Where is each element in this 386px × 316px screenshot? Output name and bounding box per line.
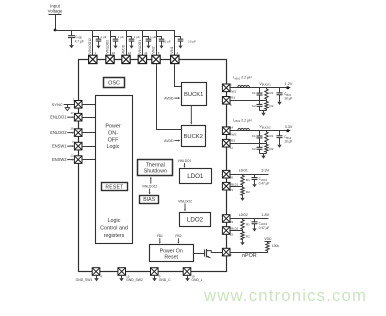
svg-text:C1: C1 <box>252 91 256 95</box>
block OSC <box>104 78 125 88</box>
block LDO2 <box>180 213 211 227</box>
svg-text:VINLDO2: VINLDO2 <box>178 199 192 203</box>
svg-text:VIN2: VIN2 <box>151 46 155 53</box>
svg-text:R2: R2 <box>246 235 250 239</box>
svg-text:17: 17 <box>70 111 74 115</box>
svg-text:13: 13 <box>144 51 148 55</box>
wire VIN1 to BUCK1 <box>175 64 182 87</box>
svg-text:Shutdown: Shutdown <box>144 169 167 175</box>
block Thermal Shutdown <box>138 160 173 176</box>
capacitor 1 µF at VINLDO2 <box>110 36 116 38</box>
resistor R1 <box>241 219 244 231</box>
wire arrow VINLDO12 to Thermal Shutdown <box>150 177 152 184</box>
svg-text:12: 12 <box>70 153 74 157</box>
pin VIN1 (4) <box>171 55 179 63</box>
svg-text:21: 21 <box>230 188 234 192</box>
capacitor CBU2 10 uF <box>277 131 283 143</box>
svg-text:FB2: FB2 <box>230 138 236 142</box>
svg-text:AVDD: AVDD <box>164 139 174 143</box>
svg-text:ENSW2: ENSW2 <box>52 157 67 162</box>
svg-text:GND_SW1: GND_SW1 <box>76 278 93 282</box>
svg-text:LDO1: LDO1 <box>239 169 248 173</box>
pin AVDD (10) <box>122 55 130 63</box>
svg-text:FB1: FB1 <box>157 234 163 238</box>
resistor R2 <box>241 231 244 241</box>
capacitor C2 <box>257 143 263 153</box>
svg-text:14: 14 <box>230 126 234 130</box>
pin GND_C (9) <box>151 268 159 276</box>
pin GND_SW1 (4) <box>92 268 100 276</box>
ground at GND_L <box>185 275 190 281</box>
capacitor 10 µF at VIN2 <box>156 36 162 38</box>
pin FB1 (8) <box>222 97 230 105</box>
svg-text:0.47 µF: 0.47 µF <box>259 226 270 230</box>
svg-text:10: 10 <box>128 51 132 55</box>
svg-text:1 µF: 1 µF <box>100 35 106 39</box>
svg-text:VIN1: VIN1 <box>170 46 174 53</box>
pin LDO1 (20) <box>222 170 230 178</box>
pin FBLD1 (21) <box>222 182 230 190</box>
svg-text:ENSW1: ENSW1 <box>52 144 67 149</box>
wire ENSW2 to logic <box>82 159 96 161</box>
resistor R2 <box>265 143 268 153</box>
svg-text:www.cntronics.com: www.cntronics.com <box>203 286 367 305</box>
svg-text:BUCK1: BUCK1 <box>184 92 203 98</box>
svg-text:10 µF: 10 µF <box>163 40 171 44</box>
wire join, ground <box>259 110 266 112</box>
svg-text:OFF: OFF <box>108 137 119 143</box>
svg-text:AVDD: AVDD <box>121 44 125 53</box>
block BIAS <box>140 196 159 204</box>
pin VINLDO12 (1) <box>89 55 97 63</box>
svg-text:GND_SW2: GND_SW2 <box>126 278 143 282</box>
svg-text:R1: R1 <box>270 134 274 138</box>
svg-text:AVDD: AVDD <box>164 96 174 100</box>
capacitor CLDO2 0.47 uF <box>252 219 258 228</box>
wire FBLD2 feedback <box>230 230 243 232</box>
wire bus to pin VIN1 <box>174 30 176 55</box>
svg-text:23: 23 <box>230 220 234 224</box>
node input bus junction <box>54 29 57 32</box>
pin FBLD2 (22) <box>222 227 230 235</box>
wire bus to pin AVDD <box>126 30 128 55</box>
svg-text:FB1: FB1 <box>230 95 236 99</box>
svg-text:100k: 100k <box>272 244 280 248</box>
pin VIN2 (6) <box>152 55 160 63</box>
block BUCK1 <box>182 83 207 106</box>
svg-text:20: 20 <box>230 176 234 180</box>
wire FBLD1 feedback <box>230 186 243 188</box>
svg-text:FBLD1: FBLD1 <box>230 182 239 186</box>
block Power ON-OFF Logic / Logic Control and registers <box>96 96 133 244</box>
svg-text:VDD: VDD <box>264 237 272 241</box>
wire ENLDO1 to logic <box>82 117 96 119</box>
resistor 100k pull-up <box>266 241 269 252</box>
pin VINLDO1 (13) <box>138 55 146 63</box>
svg-text:11: 11 <box>230 146 233 150</box>
svg-text:ON-: ON- <box>108 130 118 136</box>
svg-text:R1: R1 <box>246 223 250 227</box>
ground at GND_C <box>152 275 157 281</box>
wire arrow VINLDO12 to BIAS <box>149 189 151 195</box>
capacitor CVDD 4.7uF <box>68 30 75 43</box>
wire VIN2 to BUCK2 <box>157 64 182 130</box>
svg-text:16: 16 <box>70 126 74 130</box>
wire bus to pin VIN2 <box>156 30 158 55</box>
svg-text:1 µF: 1 µF <box>150 35 156 39</box>
svg-text:Thermal: Thermal <box>146 162 165 168</box>
svg-text:BUCK2: BUCK2 <box>184 134 203 140</box>
svg-text:FB2: FB2 <box>175 234 181 238</box>
capacitor 1 µF at VINLDO12 <box>93 36 99 38</box>
wire ENSW1 to logic <box>82 146 96 148</box>
wire ENLDO2 to logic <box>82 132 96 134</box>
svg-text:RESET: RESET <box>105 184 123 190</box>
svg-text:VINLDO12: VINLDO12 <box>88 38 92 54</box>
svg-text:FBLD2: FBLD2 <box>230 227 239 231</box>
svg-text:LDO2: LDO2 <box>187 217 204 224</box>
svg-text:R1: R1 <box>270 91 274 95</box>
wire SW1 to inductor/output <box>230 87 290 89</box>
svg-text:LBU2 2.2 µH: LBU2 2.2 µH <box>233 119 252 124</box>
wire arrow BUCK1 to BUCK2 <box>190 106 192 125</box>
ground at GND_SW1 <box>94 275 99 281</box>
svg-text:BIAS: BIAS <box>143 197 155 203</box>
wire bus to pin VINLDO12 <box>92 30 94 55</box>
capacitor C1 <box>257 131 263 144</box>
svg-text:Logic: Logic <box>108 218 121 224</box>
svg-text:LDO2: LDO2 <box>239 213 248 217</box>
svg-text:R2: R2 <box>246 190 250 194</box>
block RESET <box>102 183 128 191</box>
svg-text:registers: registers <box>104 233 125 239</box>
ground at SYNC <box>67 105 69 108</box>
svg-text:0.47 µF: 0.47 µF <box>259 182 270 186</box>
transistor open-drain NMOS <box>204 250 206 257</box>
svg-text:R1: R1 <box>246 178 250 182</box>
pin GND_L (19) <box>183 268 191 276</box>
svg-text:SYNC: SYNC <box>52 102 63 107</box>
wire transistor drain to nPOR pin <box>211 252 222 254</box>
resistor R2 <box>265 100 268 110</box>
svg-text:VINLDO1: VINLDO1 <box>178 159 192 163</box>
resistor R1 <box>265 88 268 101</box>
svg-text:4.7 µF: 4.7 µF <box>75 40 84 44</box>
block BUCK2 <box>182 126 206 147</box>
wire FB2 feedback <box>230 143 267 145</box>
svg-text:ENLDO2: ENLDO2 <box>50 130 67 135</box>
block LDO1 <box>180 169 212 184</box>
svg-text:24: 24 <box>112 51 116 55</box>
wire join, ground <box>259 153 266 155</box>
svg-text:nPOR: nPOR <box>242 253 257 259</box>
svg-text:R2: R2 <box>270 147 274 151</box>
block Power On Reset <box>150 245 194 262</box>
ground at GND_SW2 <box>119 275 124 281</box>
pin GND_SW2 (15) <box>118 268 126 276</box>
capacitor CBU1 10 uF <box>277 88 283 100</box>
svg-text:VINLDO2: VINLDO2 <box>105 40 109 54</box>
pin VINLDO2 (24) <box>106 55 114 63</box>
svg-text:10 µF: 10 µF <box>284 140 292 144</box>
wire SYNC to logic <box>82 104 96 106</box>
capacitor C2 <box>257 100 263 110</box>
capacitor 10 µF at VIN1 <box>175 36 181 38</box>
svg-text:C2: C2 <box>252 147 256 151</box>
svg-text:3.3V: 3.3V <box>285 125 293 129</box>
pin nPOR (3) <box>222 248 230 256</box>
svg-text:C1: C1 <box>252 134 256 138</box>
svg-text:SW2: SW2 <box>230 132 237 136</box>
wire input to bus <box>55 14 57 30</box>
svg-text:R2: R2 <box>270 104 274 108</box>
pin SW2 (14) <box>222 127 230 135</box>
capacitor 1 µF at VINLDO1 <box>142 36 148 38</box>
resistor R2 <box>241 186 244 196</box>
wire bus to pin VINLDO2 <box>110 30 112 55</box>
svg-text:VINLDO1: VINLDO1 <box>138 40 142 54</box>
svg-text:1 µF: 1 µF <box>134 35 140 39</box>
svg-text:Logic: Logic <box>107 144 120 150</box>
svg-text:1 µF: 1 µF <box>118 35 124 39</box>
pin SW1 (5) <box>222 84 230 92</box>
svg-text:OSC: OSC <box>108 80 120 86</box>
svg-text:Power On: Power On <box>160 248 183 254</box>
svg-text:22: 22 <box>230 232 234 236</box>
inductor BU1 2.2 uH <box>238 85 250 87</box>
wire LDO2 output <box>230 218 269 220</box>
svg-text:3.3V: 3.3V <box>261 169 269 173</box>
wire FB1 feedback <box>230 100 267 102</box>
inductor BU2 2.2 uH <box>238 128 250 130</box>
svg-text:ENLDO1: ENLDO1 <box>50 115 67 120</box>
svg-text:1.8V: 1.8V <box>261 213 269 217</box>
wire SW2 to inductor/output <box>230 130 290 132</box>
capacitor C1 <box>257 88 263 101</box>
svg-text:10 µF: 10 µF <box>284 97 292 101</box>
svg-text:Reset: Reset <box>164 255 178 261</box>
pin LDO2 (23) <box>222 215 230 223</box>
svg-text:LDO1: LDO1 <box>187 173 204 180</box>
svg-text:VINLDO12: VINLDO12 <box>142 184 158 188</box>
resistor R1 <box>265 131 268 144</box>
resistor R1 <box>241 174 244 186</box>
svg-text:10 µF: 10 µF <box>188 40 196 44</box>
IC outline <box>79 60 227 272</box>
svg-text:1.2V: 1.2V <box>285 82 293 86</box>
capacitor CLDO1 0.47 uF <box>252 174 258 183</box>
svg-text:GND_C: GND_C <box>159 278 171 282</box>
wire top supply bus <box>55 30 175 32</box>
pin FB2 (11) <box>222 139 230 147</box>
svg-text:Voltage: Voltage <box>48 9 63 14</box>
wire LDO1 output <box>230 174 269 176</box>
svg-text:Power: Power <box>105 124 120 130</box>
capacitor 1 µF at AVDD <box>126 36 132 38</box>
svg-text:SW1: SW1 <box>230 89 237 93</box>
wire nPOR <box>230 252 268 254</box>
svg-text:C2: C2 <box>252 104 256 108</box>
svg-text:GND_L: GND_L <box>191 278 202 282</box>
svg-text:Control and: Control and <box>100 225 128 231</box>
wire bus to pin VINLDO1 <box>142 30 144 55</box>
wire POR to transistor gate <box>193 253 204 255</box>
